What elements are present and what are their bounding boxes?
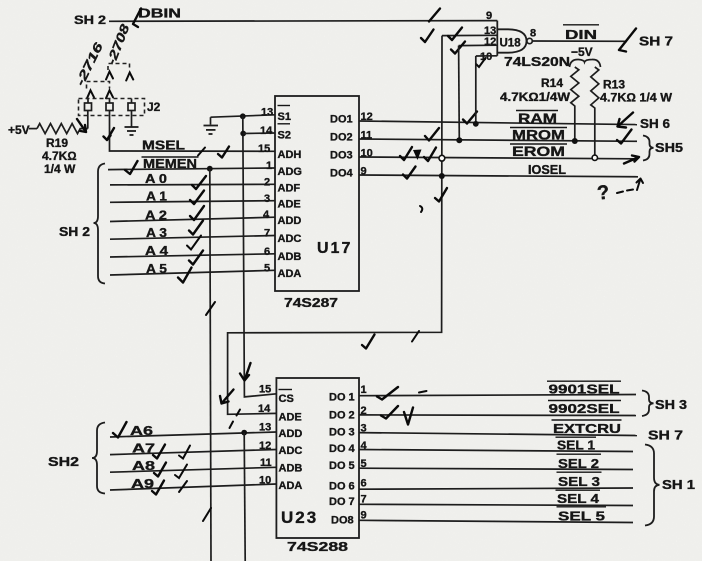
svg-text:74S287: 74S287: [284, 295, 338, 310]
svg-text:DO 7: DO 7: [329, 496, 355, 508]
checks on EROM mid: [400, 147, 412, 160]
svg-text:DO 2: DO 2: [329, 410, 355, 422]
wire DBIN horizontal to U18 pin 9: [109, 20, 497, 23]
svg-text:6: 6: [361, 478, 367, 490]
check on A4: [187, 236, 201, 250]
svg-text:15: 15: [259, 384, 271, 396]
check on A0: [192, 176, 206, 189]
wire MROM from U17 DO2: [359, 139, 637, 141]
lambda mark 4: [106, 90, 113, 98]
svg-text:IOSEL: IOSEL: [528, 163, 566, 177]
junction dot RAM / pin10: [473, 121, 479, 127]
wire SEL3 from U23 DO6: [359, 488, 633, 489]
wire SEL4 from U23 DO7: [359, 504, 633, 505]
wire SEL1 from U23 DO4: [359, 450, 633, 452]
svg-text:ADG: ADG: [278, 166, 302, 178]
svg-text:SEL 5: SEL 5: [558, 509, 605, 524]
check on A3: [189, 221, 203, 235]
svg-text:3: 3: [264, 193, 270, 205]
check on A5 left end: [178, 268, 192, 283]
svg-text:SH 2: SH 2: [74, 15, 106, 27]
svg-text:J2: J2: [147, 100, 161, 114]
check on 9901SEL: [377, 387, 398, 400]
wire A6 to U23 ADD: [110, 432, 276, 437]
node 9902SEL label with overline: [548, 400, 621, 402]
svg-text:DO 5: DO 5: [329, 460, 355, 472]
IC U23 box: [276, 378, 359, 538]
handwritten arrow at ADE bend: [220, 390, 234, 404]
resistor R13 zigzag vertical: [591, 67, 599, 156]
pin label CS with overline: [279, 389, 293, 391]
wire 9901SEL from U23 DO1: [359, 395, 636, 396]
brace SH3: [642, 391, 654, 417]
J2 pad 1: [85, 103, 92, 111]
wire U18 pin13 vertical + IOSEL to U23 ADE: [228, 36, 442, 415]
svg-text:EROM: EROM: [512, 144, 565, 159]
svg-text:DO3: DO3: [330, 150, 353, 162]
node EROM label with overline: [510, 143, 567, 145]
wire A4: [110, 254, 275, 257]
junction dot S2 / V2: [240, 131, 246, 137]
node MROM label with overline: [510, 127, 567, 129]
svg-text:SEL 2: SEL 2: [558, 456, 599, 471]
svg-text:5: 5: [264, 263, 270, 275]
svg-text:R14: R14: [541, 76, 563, 90]
check on RAM left: [463, 112, 477, 124]
wire U18 output DIN: [532, 40, 627, 42]
small squiggle left of vertical: [420, 206, 422, 212]
svg-text:SH 6: SH 6: [640, 117, 670, 131]
svg-text:ADF: ADF: [278, 183, 301, 195]
wire A9 to U23 ADA: [110, 484, 276, 490]
dashed jumper bracket for -2708: [108, 64, 130, 71]
check below IOSEL at DO4: [403, 167, 416, 179]
svg-text:ADB: ADB: [278, 251, 302, 263]
svg-text:SEL 1: SEL 1: [557, 438, 595, 453]
brace SH2 group A0-A5: [94, 164, 106, 284]
svg-text:DO 1: DO 1: [329, 392, 355, 404]
node SEL1 label with overline: [556, 436, 597, 438]
check on pin13 wire near gate: [448, 28, 462, 41]
wire MEMEN: [108, 168, 275, 170]
svg-text:R19: R19: [46, 136, 68, 150]
check at pin10 jog: [476, 58, 486, 67]
-5V distribution brace: [570, 59, 601, 67]
check on A2: [190, 206, 204, 220]
svg-text:1/4 W: 1/4 W: [44, 162, 76, 176]
extra slash on A9: [179, 481, 187, 492]
check on MROM mid: [425, 128, 439, 141]
check on MROM right: [617, 130, 632, 144]
check arrow on pad2 wire: [104, 128, 115, 140]
svg-text:4.7KΩ: 4.7KΩ: [42, 149, 77, 163]
wire A3: [110, 236, 275, 240]
slash on V1: [206, 302, 215, 315]
node RAM label with overline: [516, 110, 558, 112]
wire A7 to U23 ADC: [110, 450, 276, 455]
check on MEMEN left: [125, 161, 138, 174]
svg-text:14: 14: [258, 403, 271, 415]
svg-text:CS: CS: [279, 393, 294, 405]
svg-text:DO2: DO2: [330, 132, 353, 144]
svg-text:S2: S2: [278, 130, 291, 142]
node SEL3 label with overline: [557, 471, 602, 473]
wire A8 to U23 ADB: [110, 467, 276, 472]
check on MSEL mid: [198, 148, 205, 156]
check on A7: [153, 445, 165, 459]
check on A9: [152, 481, 164, 495]
V mark on 9902SEL: [404, 408, 413, 425]
svg-text:R13: R13: [603, 78, 625, 92]
wire EROM from U17 DO3: [359, 157, 635, 159]
op-amp U18 NAND body: [497, 29, 526, 52]
svg-text:ADA: ADA: [279, 480, 303, 492]
slash on V1 bottom: [203, 508, 211, 521]
resistor R19 zigzag: [37, 124, 88, 134]
wire A5: [110, 270, 275, 275]
svg-text:−5V: −5V: [571, 45, 593, 59]
check on A6: [113, 422, 127, 438]
junction dot IOSEL: [439, 173, 445, 179]
svg-text:SH 7: SH 7: [648, 429, 683, 443]
node MEMEN label with overline: [142, 156, 199, 158]
node SEL4 label with overline: [556, 489, 601, 491]
svg-text:1: 1: [266, 160, 272, 172]
svg-text:RAM: RAM: [518, 111, 557, 126]
check slash before SH 7: [619, 29, 636, 52]
J2 pad 3: [128, 103, 135, 111]
brace SH2 group A6-A9: [92, 423, 105, 494]
svg-text:DO8: DO8: [331, 515, 354, 527]
svg-text:+5V: +5V: [8, 123, 30, 137]
handwritten down arrow above CS: [240, 363, 251, 381]
ground for U17 S1/S2: [210, 117, 212, 124]
gate U18 input bar: [496, 21, 498, 56]
lambda mark 3: [87, 90, 94, 98]
node SEL2 label with overline: [557, 453, 602, 455]
svg-text:DO1: DO1: [330, 114, 353, 126]
svg-text:10: 10: [259, 475, 271, 487]
wire RAM from U17 DO1: [359, 121, 637, 125]
svg-text:15: 15: [258, 143, 270, 155]
svg-text:7: 7: [264, 228, 270, 240]
wire U18 pin10 vertical to RAM: [475, 56, 477, 124]
check mark on DBIN left: [133, 9, 141, 28]
extra check on A8: [175, 465, 187, 479]
svg-text:SH 1: SH 1: [662, 478, 695, 492]
ground at J2 pad 3: [131, 111, 133, 127]
IC U17 box: [275, 96, 359, 291]
node DIN label with overline: [563, 24, 599, 26]
check on 9902SEL: [381, 406, 398, 419]
open circle junction EROM / R13: [592, 155, 597, 160]
svg-text:SH2: SH2: [48, 455, 79, 469]
wire +5V to R19: [29, 128, 37, 130]
svg-text:10: 10: [480, 51, 492, 63]
wire U18 pin13 horizontal: [442, 34, 497, 36]
svg-text:9902SEL: 9902SEL: [549, 401, 620, 416]
check on pin13 wire left: [421, 30, 434, 43]
svg-text:MSEL: MSEL: [142, 139, 185, 153]
svg-text:13: 13: [261, 107, 273, 119]
svg-text:ADC: ADC: [278, 233, 302, 245]
svg-text:ADB: ADB: [279, 463, 303, 475]
svg-text:1: 1: [361, 384, 367, 396]
node EXTCRU label with overline: [552, 419, 622, 421]
junction dot MROM / R14: [572, 138, 578, 144]
svg-text:74LS20N: 74LS20N: [504, 55, 570, 69]
svg-text:DO 6: DO 6: [329, 481, 355, 493]
check on A8: [154, 463, 166, 477]
svg-text:4.7KΩ 1/4 W: 4.7KΩ 1/4 W: [600, 91, 673, 105]
check arrow at R19/J2 junction: [77, 119, 86, 132]
svg-text:6: 6: [264, 246, 270, 258]
extra check on A7: [179, 446, 190, 459]
dashed jumper bracket for -2716: [87, 82, 110, 89]
check mark slash on DBIN right: [429, 9, 440, 22]
junction dot MROM / pin12: [456, 137, 462, 143]
wire IOSEL from U17 DO4: [359, 175, 638, 177]
svg-text:8: 8: [530, 28, 536, 40]
svg-text:MROM: MROM: [512, 128, 565, 143]
svg-text:U23: U23: [281, 508, 318, 527]
wire V2 vertical S1 down to U23 CS: [243, 116, 277, 397]
svg-text:4: 4: [263, 209, 270, 221]
check on W2 horizontal: [362, 335, 375, 349]
pin label S1 with overline: [278, 105, 291, 107]
svg-text:SEL 4: SEL 4: [557, 491, 600, 506]
svg-text:ADD: ADD: [278, 215, 302, 227]
svg-text:SH5: SH5: [655, 141, 683, 155]
svg-text:SH 2: SH 2: [59, 225, 90, 239]
wire U18 pin12 vertical to MROM: [458, 46, 461, 141]
svg-text:EXTCRU: EXTCRU: [553, 421, 621, 436]
wire V1 vertical from MEMEN down off-page: [210, 169, 211, 561]
pin label S2 with overline: [278, 123, 291, 125]
arrow on EROM right into brace: [624, 156, 639, 164]
svg-text:2: 2: [264, 177, 270, 189]
lambda mark 2: [126, 73, 133, 81]
wire A0: [110, 183, 275, 186]
wire A2: [110, 217, 275, 221]
connector J2 dashed outline: [79, 99, 145, 116]
svg-text:ADE: ADE: [279, 412, 302, 424]
svg-text:U17: U17: [317, 240, 352, 257]
check on MSEL right: [218, 147, 229, 158]
svg-text:9901SEL: 9901SEL: [549, 382, 620, 397]
wire SEL2 from U23 DO5: [359, 468, 633, 469]
svg-text:ADA: ADA: [278, 268, 302, 280]
svg-text:14: 14: [260, 125, 273, 137]
wire V3 vertical from A6 down off-page: [244, 433, 245, 561]
svg-text:SH 7: SH 7: [639, 35, 673, 49]
svg-text:13: 13: [259, 422, 271, 434]
wire SEL5 from U23 DO8: [359, 520, 633, 522]
dashed arrow after ?: [617, 190, 633, 194]
svg-text:ADE: ADE: [278, 199, 301, 211]
brace SH5: [643, 136, 654, 161]
U18 output bubble: [527, 38, 532, 43]
arrow check RAM right: [618, 113, 634, 128]
svg-text:SH 3: SH 3: [655, 398, 687, 412]
svg-text:SEL 3: SEL 3: [558, 474, 600, 489]
small slash near W2 bend: [412, 331, 419, 342]
svg-text:4.7KΩ1/4W: 4.7KΩ1/4W: [500, 90, 571, 104]
wire U18 pin10 horizontal: [476, 55, 498, 57]
dash on 9901SEL: [419, 391, 427, 393]
wire S2 stub: [243, 132, 275, 135]
junction dot A6 / V3: [241, 430, 247, 436]
svg-text:9: 9: [486, 10, 492, 22]
check below IOSEL dot on vertical: [435, 188, 447, 202]
svg-text:74S288: 74S288: [287, 539, 348, 554]
check on A5: [189, 251, 203, 265]
svg-text:?: ?: [596, 182, 610, 205]
svg-text:ADH: ADH: [278, 149, 302, 161]
svg-text:DIN: DIN: [565, 27, 597, 42]
brace SH1: [645, 445, 660, 526]
svg-text:ADD: ADD: [279, 428, 303, 440]
svg-text:DO 3: DO 3: [329, 427, 355, 439]
check on A1: [190, 191, 204, 205]
wire 9902SEL from U23 DO2: [359, 414, 636, 417]
resistor R14 zigzag vertical: [571, 67, 579, 141]
svg-text:DO4: DO4: [330, 168, 354, 180]
junction dot S1 / V2: [240, 113, 246, 119]
svg-text:S1: S1: [278, 111, 291, 123]
wire ground to U17 pin13 S1: [211, 115, 276, 117]
svg-text:U18: U18: [500, 38, 522, 50]
wire J2 pad2 down then right = MSEL: [110, 111, 276, 152]
svg-text:12: 12: [259, 440, 271, 452]
wire EXTCRU from U23 DO3: [359, 433, 637, 436]
svg-text:DO 4: DO 4: [329, 443, 356, 455]
wire J2 pad1 down to R19: [87, 111, 89, 129]
svg-text:DBIN: DBIN: [138, 6, 181, 21]
lambda mark 1: [106, 72, 113, 80]
node SEL5 label with overline: [557, 506, 607, 508]
junction dot MEMEN / V1: [207, 166, 213, 172]
dashed hand strokes: [230, 410, 241, 429]
open circle junction EROM / pin13 vertical: [439, 155, 445, 161]
node 9901SEL label with overline: [547, 380, 621, 382]
svg-text:11: 11: [260, 457, 272, 469]
svg-text:ADC: ADC: [279, 445, 303, 457]
check on pin12 wire: [451, 42, 465, 54]
wire A1: [110, 201, 275, 203]
wire U18 pin12 horizontal: [459, 44, 498, 46]
J2 pad 2: [106, 103, 113, 111]
